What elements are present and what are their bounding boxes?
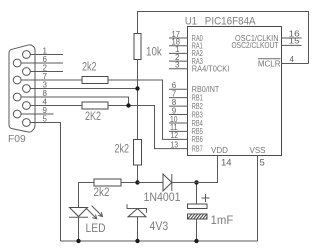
svg-text:U1: U1 [185,16,197,28]
svg-text:VDD: VDD [211,146,228,155]
pin 16 OSC1/CLKIN [235,30,302,43]
wire R1 to pin RB6 [108,80,188,139]
resistor R1 2k2 [82,62,108,84]
pin 12 RB6 [171,131,204,144]
svg-text:10k: 10k [146,47,162,59]
op IC U1 PIC16F84A box [188,27,282,156]
resistor R2 2k2 [82,102,108,123]
svg-text:1mF: 1mF [211,215,234,227]
svg-text:LED: LED [86,223,106,235]
svg-text:4V3: 4V3 [150,221,169,233]
svg-text:RB7: RB7 [192,144,203,153]
svg-text:OSC2/CLKOUT: OSC2/CLKOUT [232,41,279,50]
capacitor C1 1mF [188,183,234,242]
svg-text:3: 3 [175,61,180,70]
junction pin3 node [135,86,139,90]
svg-text:PIC16F84A: PIC16F84A [205,16,256,28]
svg-text:RB6: RB6 [192,135,203,144]
wire R4 right to node [121,182,138,184]
pin 4 MCLR [258,55,309,69]
zener diode 4V3 [127,204,168,241]
svg-text:RA4/T0CKI: RA4/T0CKI [192,65,230,74]
svg-text:4: 4 [290,55,295,64]
wire 10k top to MCLR rail [138,12,309,64]
resistor R4 2k2 [94,179,122,199]
pin 11 RB5 [169,123,203,136]
pin 17 RA0 [169,30,203,43]
connector F09 holes right column [23,51,31,127]
wire 10k bottom [137,60,139,140]
wire R2 to pin RB7 [108,106,188,149]
svg-text:2K2: 2K2 [85,111,101,123]
connector F09 outline [9,45,35,132]
LED [69,208,106,242]
pin 2 RA3 [169,53,203,66]
F09 pin 6 stub [21,55,63,64]
wire R4 left to LED [79,183,95,208]
pin 13 RB7 [171,140,204,153]
svg-text:2k2: 2k2 [82,62,97,74]
junction pin8/pin4 [126,103,130,107]
svg-text:VSS: VSS [249,146,265,155]
F09 pin 8 wire [21,89,128,106]
connector F09 holes left column [13,59,21,118]
diode D1 1N4001 [138,174,218,204]
svg-text:F09: F09 [8,133,26,145]
ground rail [61,240,258,242]
F09 pin 5 wire to ground rail [30,115,60,242]
pin 14 VDD [172,146,232,183]
pin 6 RB0/INT [169,81,219,94]
svg-text:15: 15 [289,37,301,46]
svg-text:14: 14 [221,158,232,169]
svg-text:5: 5 [260,158,265,169]
junction cap node [194,180,198,184]
F09 pin 3 wire to 10k node [30,81,137,90]
svg-text:MCLR: MCLR [258,60,281,69]
F09 pin 9 stub [21,106,53,115]
pin 1 RA2 [169,45,203,58]
junction LED ground [76,239,80,243]
svg-text:2k2: 2k2 [115,144,130,156]
svg-text:13: 13 [171,140,179,149]
pin 5 VSS [249,146,265,241]
pin 9 RB3 [169,106,203,119]
junction cap ground [194,239,198,243]
svg-text:12: 12 [171,131,179,140]
pin 3 RA4/T0CKI [169,61,229,74]
F09 pin 2 stub [30,64,63,73]
F09 pin 4 wire to R2 [30,98,82,107]
pin 18 RA1 [169,38,203,51]
svg-text:5: 5 [43,115,48,124]
resistor R3 2k2 vertical [115,140,142,166]
wire R3 bottom to node [137,165,139,183]
svg-text:2k2: 2k2 [94,187,110,199]
pin 10 RB4 [169,115,203,128]
svg-text:1N4001: 1N4001 [144,192,181,204]
junction main node [135,180,139,184]
pin 15 OSC2/CLKOUT [232,37,302,51]
LED arrows [86,206,103,219]
pin 8 RB2 [169,98,203,111]
F09 pin 7 wire to R1 [21,72,82,81]
pin 7 RB1 [169,89,203,102]
junction zener ground [135,239,139,243]
F09 pin 1 stub [30,47,63,56]
resistor 10k [134,34,162,60]
